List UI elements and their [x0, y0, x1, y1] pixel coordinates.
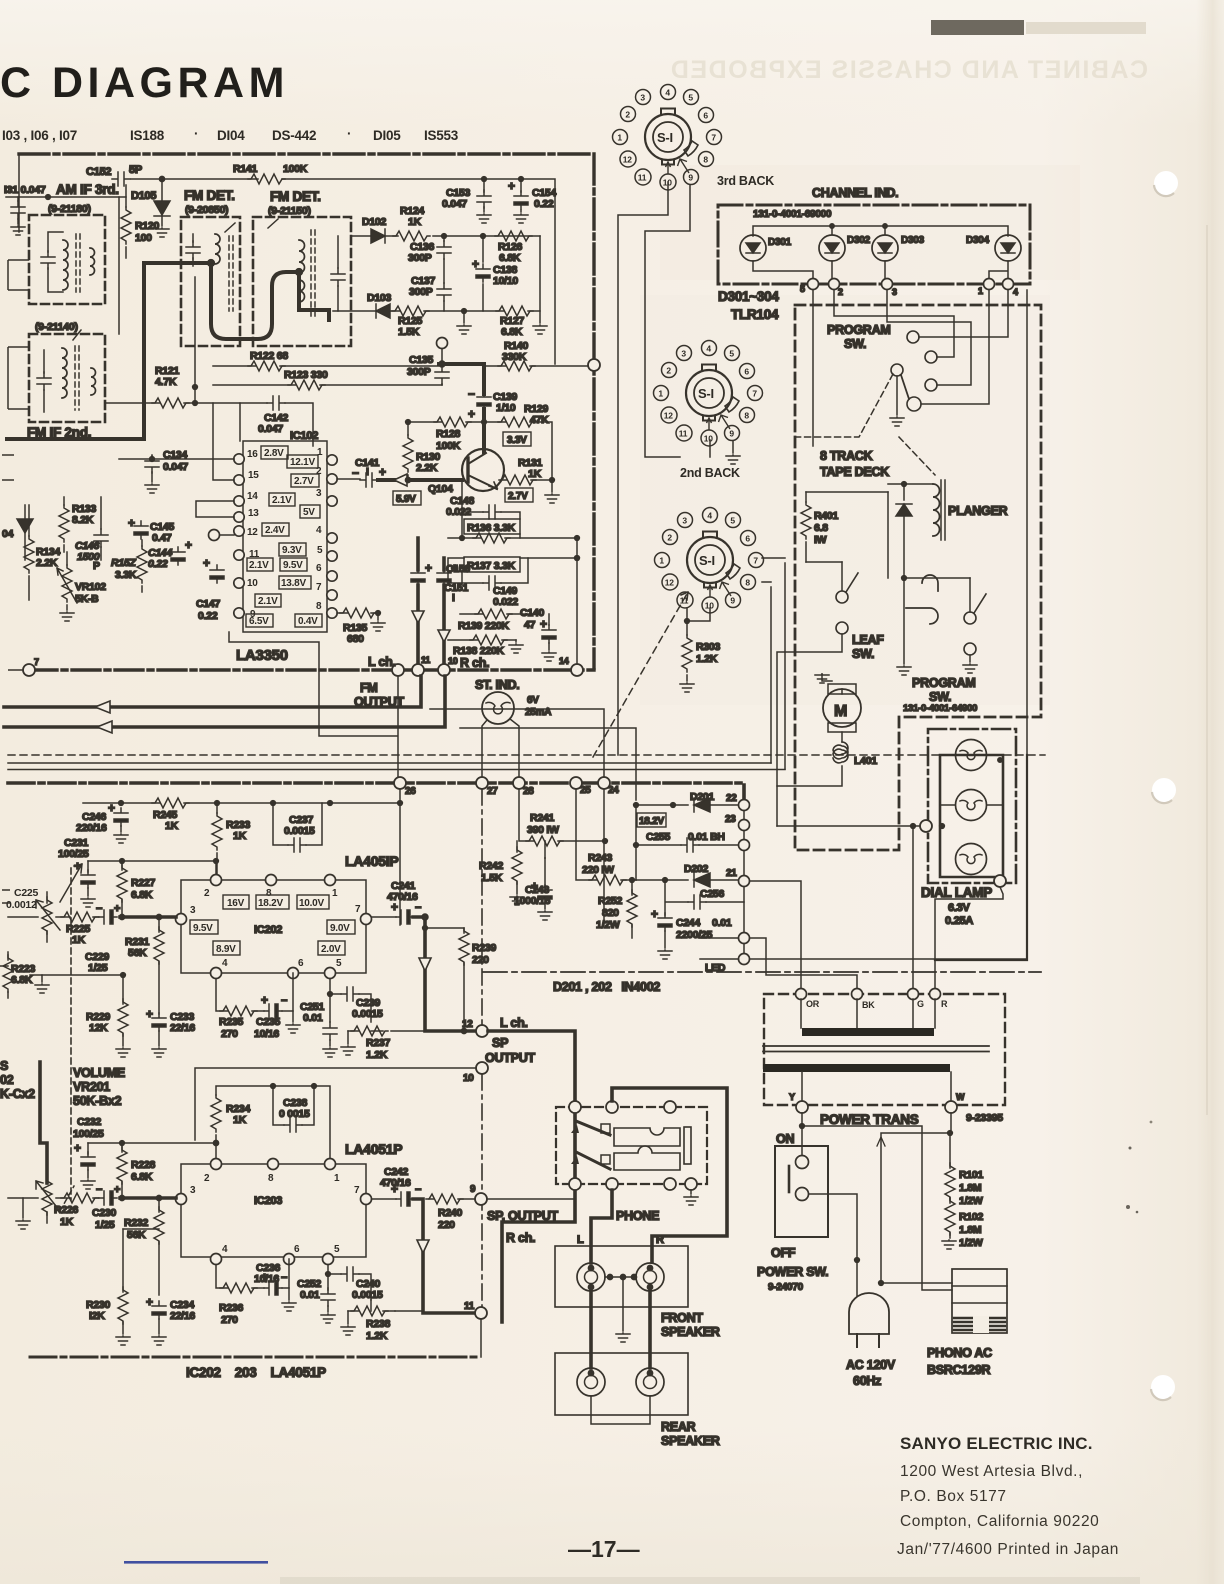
svg-text:D103: D103 [367, 292, 392, 304]
wire y422 row [408, 422, 552, 480]
transformer primary bar [801, 999, 935, 1028]
dark tab top right [931, 20, 1024, 35]
svg-text:R252: R252 [598, 895, 623, 907]
resistor R243 [576, 789, 636, 880]
capacitor C138 electrolytic [482, 236, 484, 311]
capacitor C149 [448, 558, 528, 583]
resistor R129 [498, 417, 535, 427]
rotary switch S-1 3rd BACK [613, 85, 722, 191]
svg-text:S-I: S-I [699, 553, 715, 568]
top dash-dot border [19, 152, 594, 155]
svg-text:0.25A: 0.25A [945, 915, 973, 927]
svg-text:5: 5 [730, 515, 735, 525]
collector thick [482, 409, 486, 452]
svg-text:4: 4 [1013, 287, 1018, 297]
svg-text:+: + [651, 907, 658, 921]
svg-text:I31 0.047: I31 0.047 [4, 184, 46, 196]
svg-text:TLR104: TLR104 [731, 307, 779, 322]
grounds under row [462, 309, 467, 314]
svg-text:I: I [366, 466, 369, 478]
phone interior contacts [576, 1121, 610, 1135]
svg-text:LED: LED [705, 962, 726, 974]
right dash-dot border vertical [592, 154, 595, 668]
svg-text:2.4V: 2.4V [265, 525, 285, 536]
svg-text:3: 3 [316, 488, 322, 499]
base wire with arrow [378, 478, 462, 482]
svg-text:1/25: 1/25 [88, 962, 108, 974]
pin circles under channel ind [808, 279, 1014, 290]
open node circles dial lamp [920, 820, 932, 832]
svg-text:D202: D202 [684, 863, 709, 875]
svg-text:FM DET.: FM DET. [184, 188, 235, 203]
svg-text:K-Cx2: K-Cx2 [0, 1087, 35, 1101]
resistor R227 [121, 861, 123, 917]
LED D301 [740, 235, 766, 261]
svg-text:4: 4 [665, 87, 670, 97]
svg-text:R237: R237 [366, 1037, 391, 1049]
svg-text:R228: R228 [131, 1159, 156, 1171]
svg-text:7: 7 [34, 657, 39, 667]
svg-text:LEAF: LEAF [852, 633, 884, 647]
svg-text:2: 2 [838, 287, 843, 297]
svg-text:(9-21180): (9-21180) [48, 203, 91, 215]
svg-text:820: 820 [602, 907, 619, 919]
resistor R225 [61, 912, 98, 922]
svg-text:POWER SW.: POWER SW. [757, 1265, 828, 1279]
svg-text:220: 220 [438, 1219, 455, 1231]
svg-text:+: + [185, 538, 192, 552]
resistor R234 [211, 1095, 221, 1132]
resistor R226 [61, 1193, 98, 1203]
svg-text:LA4051P: LA4051P [345, 1141, 402, 1157]
capacitor C233 [152, 1013, 166, 1031]
capacitor C230 [99, 1191, 117, 1205]
pin 12 node L ch [476, 1025, 488, 1037]
resistor R231 [158, 917, 160, 1014]
svg-text:C230: C230 [92, 1207, 117, 1219]
svg-text:SW.: SW. [844, 337, 866, 351]
svg-text:R239: R239 [472, 942, 497, 954]
svg-text:3: 3 [190, 905, 196, 916]
svg-text:+: + [203, 556, 210, 570]
svg-text:5V: 5V [303, 507, 315, 518]
rear bottom wires [591, 1396, 650, 1424]
ground under switch2 pin9 [732, 441, 734, 453]
wire y197 [6, 196, 126, 198]
svg-text:300P: 300P [407, 366, 431, 378]
svg-text:5: 5 [336, 958, 342, 969]
svg-text:6.5V: 6.5V [249, 616, 269, 627]
wires from switch1 pins 10,9 down [618, 182, 690, 755]
center ground link [605, 1276, 636, 1278]
svg-text:2.8V: 2.8V [264, 448, 284, 459]
svg-text:S-I: S-I [657, 130, 673, 145]
svg-text:BSRC129R: BSRC129R [927, 1363, 991, 1377]
svg-text:2.7V: 2.7V [508, 491, 528, 502]
AC plug [849, 1293, 889, 1334]
capacitor C244 [658, 913, 672, 931]
svg-text:6.8K: 6.8K [131, 1171, 153, 1183]
svg-text:12: 12 [664, 410, 673, 420]
thin rails [8, 763, 785, 770]
svg-text:−: − [352, 466, 359, 480]
pins OR BK G R [796, 989, 941, 1000]
svg-text:(9-21140): (9-21140) [35, 321, 78, 333]
svg-text:OFF: OFF [771, 1246, 796, 1260]
thick to phone [488, 1031, 575, 1100]
svg-text:16V: 16V [227, 898, 245, 909]
svg-text:13.8V: 13.8V [281, 578, 306, 589]
svg-text:IC102: IC102 [290, 430, 318, 442]
dashed program link diagonal [593, 592, 688, 757]
resistor R238 [348, 1300, 395, 1311]
svg-text:5: 5 [800, 284, 805, 294]
input rail thick into IC203 pin3 [120, 1196, 176, 1200]
svg-text:22: 22 [726, 793, 737, 804]
svg-text:5: 5 [317, 545, 323, 556]
svg-text:C232: C232 [77, 1116, 102, 1128]
ghost mirrored heading from reverse side [669, 56, 1148, 84]
svg-text:C256: C256 [700, 888, 725, 900]
svg-text:D302: D302 [847, 235, 871, 246]
voltage 3.3V [503, 432, 531, 446]
svg-text:CABINET AND CHASSIS EXPBODED: CABINET AND CHASSIS EXPBODED [669, 56, 1148, 84]
svg-text:+: + [146, 1295, 153, 1309]
svg-text:2.2K: 2.2K [416, 462, 438, 474]
svg-text:0.0015: 0.0015 [352, 1008, 383, 1020]
svg-text:11: 11 [464, 1301, 475, 1312]
diode D103 [376, 304, 390, 318]
bus1 dash-dot horizontal [29, 668, 594, 671]
svg-text:25mA: 25mA [525, 707, 551, 718]
svg-text:DI04: DI04 [217, 128, 245, 143]
left edge wire stubs [2, 260, 29, 670]
svg-text:47: 47 [524, 619, 536, 631]
svg-text:2: 2 [204, 888, 210, 899]
svg-text:PHONO AC: PHONO AC [927, 1346, 992, 1360]
capacitor C137 [437, 283, 451, 301]
svg-text:−: − [96, 1184, 102, 1196]
switch arm and ground [901, 375, 909, 399]
svg-text:R226: R226 [54, 1204, 79, 1216]
resistor R139 [460, 613, 540, 615]
FRONT SPEAKER box [555, 1246, 688, 1307]
svg-text:0.0015: 0.0015 [352, 1289, 383, 1301]
left border stub [18, 154, 20, 232]
volume pot VR201a [46, 892, 48, 942]
svg-text:12: 12 [247, 527, 258, 538]
svg-text:2: 2 [204, 1173, 210, 1184]
svg-text:22/16: 22/16 [170, 1310, 195, 1322]
volume dashed link [70, 868, 72, 1200]
svg-text:0.0015: 0.0015 [284, 825, 315, 837]
svg-text:9: 9 [470, 1184, 476, 1195]
svg-text:1/2W: 1/2W [959, 1195, 983, 1207]
svg-text:PROGRAM: PROGRAM [912, 676, 976, 690]
svg-text:L401: L401 [854, 755, 877, 767]
bus1 node circles [23, 664, 35, 676]
svg-text:100: 100 [135, 232, 152, 244]
thick phone bracket [612, 1088, 727, 1262]
svg-text:9-24070: 9-24070 [768, 1282, 804, 1293]
svg-text:0.01 BH: 0.01 BH [688, 831, 725, 843]
hooks and program contacts [902, 576, 907, 581]
D201 row [636, 804, 738, 806]
svg-text:2nd BACK: 2nd BACK [680, 466, 740, 480]
svg-text:7: 7 [752, 388, 757, 398]
rotary switch S-1 2nd BACK [654, 341, 763, 447]
svg-text:IC203: IC203 [254, 1195, 282, 1207]
PHONO AC box [952, 1269, 1007, 1333]
R236 C236 row from IC203 pin4 [216, 1259, 289, 1288]
svg-text:8: 8 [703, 154, 708, 164]
svg-text:11: 11 [680, 595, 689, 605]
svg-text:1.2K: 1.2K [366, 1049, 388, 1061]
svg-text:+: + [379, 465, 386, 479]
rotary switch S-1 program select [655, 508, 764, 614]
dial lamp R wire [935, 887, 1027, 988]
wire from AM box down [118, 197, 120, 334]
resistor R138 [448, 639, 516, 641]
svg-text:2.1V: 2.1V [258, 596, 278, 607]
svg-text:8: 8 [316, 601, 322, 612]
wire y311 row [333, 236, 540, 311]
resistor R137 boxed [464, 557, 520, 572]
svg-text:1.2K: 1.2K [366, 1330, 388, 1342]
svg-text:56K: 56K [127, 1229, 146, 1241]
voltage labels IC102 [246, 446, 322, 627]
svg-text:8: 8 [745, 577, 750, 587]
svg-text:4: 4 [706, 343, 711, 353]
svg-text:R102: R102 [959, 1211, 984, 1223]
LED D303 [872, 235, 898, 261]
svg-text:10.0V: 10.0V [299, 898, 324, 909]
resistor R135 [337, 613, 378, 620]
capacitor C237 [273, 803, 322, 845]
svg-text:D201 , 202 IN4002: D201 , 202 IN4002 [553, 980, 660, 994]
pin 9 node [475, 1193, 487, 1205]
svg-text:CHANNEL IND.: CHANNEL IND. [812, 186, 898, 200]
svg-text:0.47: 0.47 [152, 532, 172, 544]
svg-text:+: + [128, 516, 135, 530]
svg-text:8.2K: 8.2K [72, 514, 94, 526]
svg-text:1.8M: 1.8M [959, 1224, 982, 1236]
2.7V box [505, 488, 533, 502]
svg-text:P: P [93, 560, 100, 572]
svg-text:2: 2 [625, 109, 630, 119]
svg-text:12: 12 [623, 154, 632, 164]
svg-text:R: R [941, 999, 948, 1009]
svg-text:10: 10 [704, 433, 713, 443]
svg-text:I2K: I2K [89, 1310, 105, 1322]
svg-text:Q104: Q104 [428, 483, 453, 495]
R235 C235 row from pin4 [216, 973, 293, 1011]
svg-text:+: + [391, 1182, 398, 1196]
svg-text:I: I [452, 592, 455, 604]
svg-text:1: 1 [332, 888, 338, 899]
svg-text:300P: 300P [409, 286, 433, 298]
capacitor C240 [328, 1274, 371, 1300]
input rail thick into pin3 [120, 915, 176, 919]
D202 row [636, 879, 738, 881]
Y W pins [802, 1072, 951, 1101]
y938 wire [700, 937, 738, 939]
bus2 dash-dot thick [8, 783, 744, 800]
svg-text:24: 24 [608, 785, 619, 796]
svg-text:R136 3.3K: R136 3.3K [467, 522, 516, 534]
svg-text:56K: 56K [128, 947, 147, 959]
svg-text:9: 9 [729, 428, 734, 438]
resistor R229 [42, 975, 123, 1046]
svg-text:I03 , I06 , I07: I03 , I06 , I07 [2, 128, 77, 143]
svg-text:LA405IP: LA405IP [345, 853, 399, 869]
thick R to speakers [502, 1107, 575, 1322]
resistor R130 [407, 422, 409, 480]
capacitor C229 [99, 910, 117, 924]
wire R122 row thick to C135 [213, 365, 439, 367]
svg-text:0.4V: 0.4V [298, 616, 318, 627]
svg-text:1/25: 1/25 [95, 1219, 115, 1231]
svg-text:R236: R236 [219, 1302, 244, 1314]
svg-text:R141: R141 [233, 163, 258, 175]
Q104 transistor [462, 449, 504, 491]
volume pot VR201b [46, 1173, 48, 1223]
svg-text:R137 3.3K: R137 3.3K [467, 560, 516, 572]
leaf switch [841, 562, 843, 590]
svg-text:R123 330: R123 330 [284, 369, 328, 381]
LED row [700, 958, 738, 960]
svg-text:W: W [956, 1092, 965, 1102]
svg-text:SP: SP [492, 1036, 508, 1050]
svg-text:8: 8 [268, 1173, 274, 1184]
thick jack feeds to rear [591, 1291, 650, 1368]
svg-text:R303: R303 [696, 641, 721, 653]
svg-text:14: 14 [247, 491, 258, 502]
speaker jack L rear [577, 1368, 605, 1396]
potentiometer VR102 [62, 565, 72, 602]
svg-text:+: + [114, 903, 120, 915]
LED bottom connections [753, 261, 1008, 284]
svg-text:25: 25 [580, 785, 591, 796]
program switch wiring [919, 290, 1008, 337]
svg-text:0.047: 0.047 [258, 423, 283, 435]
svg-text:−: − [96, 903, 102, 915]
svg-text:390 IW: 390 IW [527, 824, 559, 836]
switch3 pin7 wire right [762, 558, 785, 582]
svg-text:1.8M: 1.8M [959, 1182, 982, 1194]
resistor R128 [434, 417, 471, 427]
svg-text:21: 21 [726, 868, 737, 879]
svg-text:12: 12 [462, 1019, 473, 1030]
svg-text:+: + [508, 179, 515, 193]
program switch contacts [907, 331, 919, 343]
svg-text:+: + [472, 257, 479, 271]
svg-text:+: + [391, 900, 398, 914]
svg-text:220/16: 220/16 [76, 822, 107, 834]
punch holes [1151, 171, 1178, 1400]
svg-text:6.3V: 6.3V [948, 902, 971, 914]
svg-text:11: 11 [421, 655, 430, 665]
svg-text:D102: D102 [362, 216, 387, 228]
svg-text:2.1V: 2.1V [272, 495, 292, 506]
svg-text:+: + [540, 617, 547, 631]
svg-text:28: 28 [523, 786, 534, 797]
left gnd stub [22, 1198, 24, 1218]
wires to power trans pins [750, 881, 1027, 988]
svg-text:IC202 203 LA4051P: IC202 203 LA4051P [186, 1365, 326, 1380]
section divider dash-dot y972 [483, 971, 1041, 973]
svg-text:10/16: 10/16 [254, 1273, 279, 1285]
svg-text:M: M [834, 703, 847, 720]
svg-text:BK: BK [862, 1000, 875, 1010]
svg-text:R ch.: R ch. [460, 656, 489, 670]
capacitor C238 [284, 1118, 302, 1132]
svg-text:12: 12 [665, 577, 674, 587]
IC102 left pins [234, 454, 337, 618]
svg-text:0.22: 0.22 [534, 198, 554, 210]
svg-text:−: − [281, 1272, 287, 1284]
svg-text:22/16: 22/16 [170, 1022, 195, 1034]
svg-text:4: 4 [222, 1244, 228, 1255]
svg-text:REAR: REAR [661, 1420, 696, 1434]
svg-text:R15Z: R15Z [111, 557, 137, 569]
svg-text:Y: Y [789, 1092, 795, 1102]
capacitor C148 [462, 480, 520, 519]
svg-text:1/10: 1/10 [496, 402, 516, 414]
svg-text:100K: 100K [283, 163, 308, 175]
svg-text:IS553: IS553 [424, 128, 459, 143]
svg-text:4.7K: 4.7K [155, 376, 177, 388]
resistor R127 [496, 306, 533, 316]
svg-text:R120: R120 [135, 220, 160, 232]
resistor R122 [248, 361, 285, 371]
svg-text:9.3V: 9.3V [282, 545, 302, 556]
svg-text:330K: 330K [502, 351, 527, 363]
svg-text:SW.: SW. [852, 647, 874, 661]
svg-text:2.2K: 2.2K [36, 557, 58, 569]
resistor R120 [125, 185, 127, 258]
svg-text:VR201: VR201 [73, 1080, 110, 1094]
svg-text:14: 14 [559, 656, 569, 666]
svg-text:2: 2 [667, 532, 672, 542]
svg-text:9.0V: 9.0V [330, 923, 350, 934]
svg-text:11: 11 [679, 428, 688, 438]
svg-text:OR: OR [806, 999, 820, 1009]
resistor R136 boxed [464, 519, 520, 534]
svg-text:6.8K: 6.8K [11, 974, 33, 986]
svg-text:R241: R241 [530, 812, 555, 824]
svg-text:6: 6 [298, 958, 304, 969]
svg-text:ST. IND.: ST. IND. [475, 678, 520, 692]
resistor R241 [519, 789, 605, 841]
svg-text:C244: C244 [676, 917, 701, 929]
svg-text:02: 02 [0, 1073, 14, 1087]
svg-text:SPEAKER: SPEAKER [661, 1325, 720, 1339]
svg-text:R139 220K: R139 220K [458, 620, 510, 632]
svg-text:220: 220 [472, 954, 489, 966]
svg-text:1: 1 [617, 132, 622, 142]
svg-text:18.2V: 18.2V [639, 816, 664, 827]
ground under D105 [155, 228, 169, 237]
svg-text:IW: IW [814, 534, 827, 546]
core lines [763, 1046, 989, 1052]
resistor R124 [393, 231, 430, 241]
18.2V box [637, 813, 666, 827]
svg-text:PLANGER: PLANGER [948, 504, 1008, 518]
svg-text:+: + [74, 1141, 81, 1155]
speaker jack L front [577, 1263, 605, 1291]
svg-text:1K: 1K [165, 820, 179, 832]
